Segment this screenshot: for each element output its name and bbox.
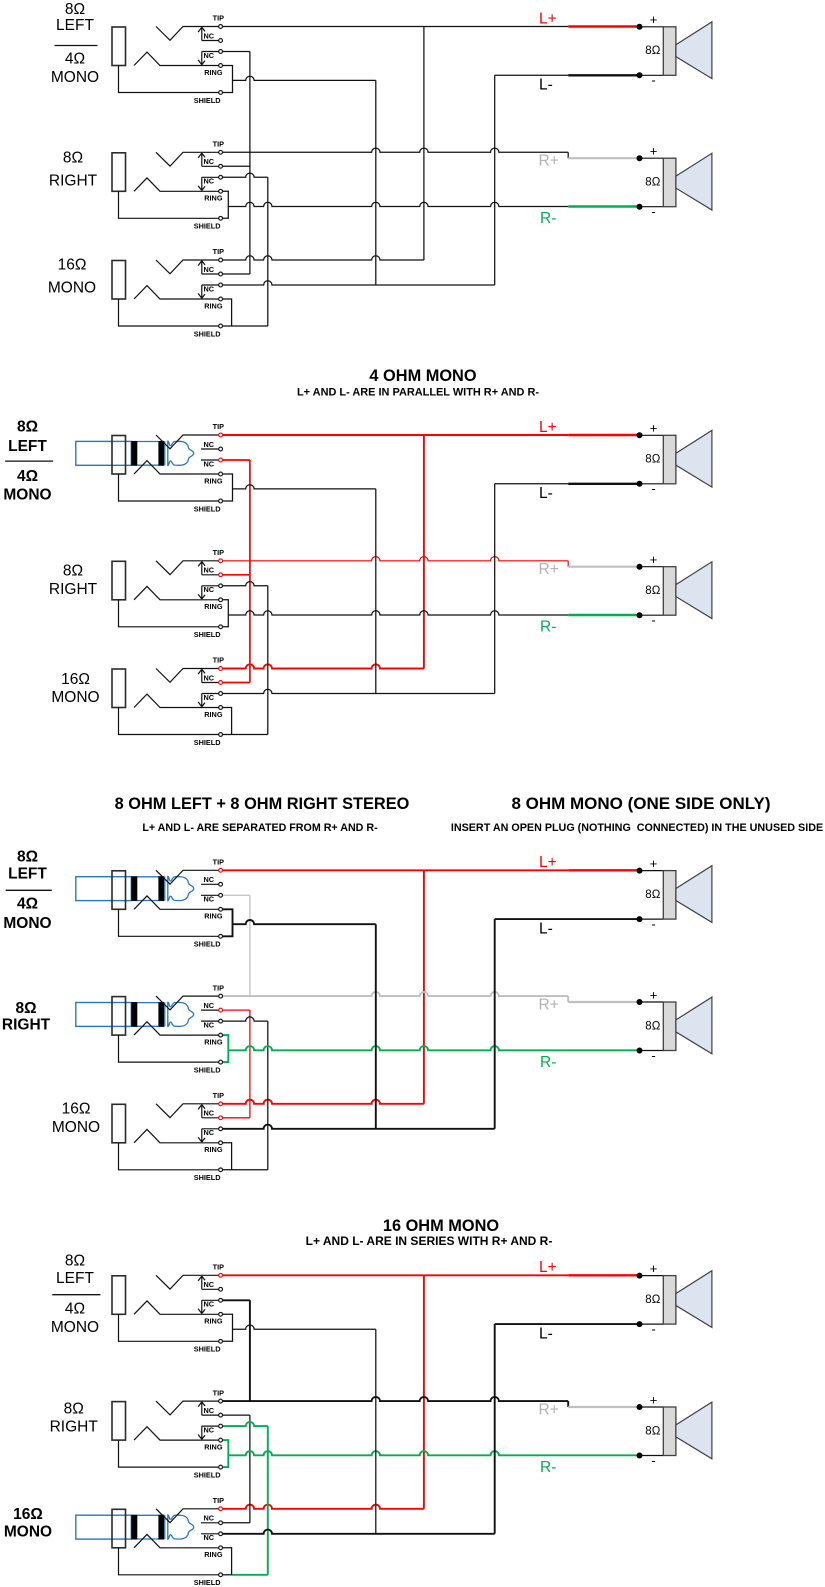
wire S1 NC1(J2) wire — [223, 165, 250, 167]
svg-text:NC: NC — [204, 265, 215, 274]
svg-text:+: + — [650, 1392, 658, 1407]
J41 NC1 terminal — [219, 1287, 223, 1291]
J42 NC2 terminal — [219, 1424, 223, 1428]
J11 SHIELD lead — [119, 66, 219, 93]
jack J32 — [76, 983, 224, 1074]
J13 NC1 contact + switch arrow — [198, 261, 218, 274]
J33 NC2 terminal — [219, 1127, 223, 1131]
J11 NC2 terminal — [219, 50, 223, 54]
svg-text:8Ω: 8Ω — [65, 1, 85, 18]
J13 RING contact — [134, 286, 219, 299]
svg-text:SHIELD: SHIELD — [194, 1578, 221, 1587]
wire S1 L- branch from J1 — [233, 76, 376, 80]
svg-text:NC: NC — [204, 177, 215, 186]
svg-text:NC: NC — [204, 440, 215, 449]
J33 RING terminal — [219, 1141, 223, 1145]
svg-text:MONO: MONO — [51, 1319, 99, 1336]
J21 SHIELD lead — [119, 474, 219, 501]
SP2L (8 ohm) terminal leads — [640, 435, 664, 484]
svg-text:8Ω: 8Ω — [17, 849, 38, 866]
SP1L (8 ohm) + terminal dot — [637, 24, 643, 30]
svg-text:MONO: MONO — [3, 915, 51, 932]
speaker SP3L (8 ohm) — [637, 856, 712, 932]
svg-text:TIP: TIP — [213, 1496, 224, 1505]
J42 NC2 contact + switch arrow — [198, 1426, 218, 1439]
J43 TIP terminal — [219, 1507, 223, 1511]
J32 NC2 stub (open) — [201, 1020, 219, 1022]
svg-text:TIP: TIP — [213, 1091, 224, 1100]
svg-text:TIP: TIP — [213, 140, 224, 149]
plug stripe 1 — [131, 1515, 137, 1540]
wire S3 L- vertical — [494, 919, 496, 1129]
J13 SHIELD terminal — [219, 324, 223, 328]
svg-text:8Ω: 8Ω — [645, 1020, 660, 1032]
plug in J21: handle — [76, 441, 132, 465]
J43 NC1 stub (open) — [201, 1522, 219, 1524]
SP2L (8 ohm) magnet/frame — [663, 435, 676, 484]
svg-text:MONO: MONO — [52, 1119, 100, 1136]
wire S3 L- branch from J1 — [233, 920, 376, 924]
svg-text:MONO: MONO — [3, 487, 51, 504]
J23 body (bushing) — [112, 669, 126, 708]
J12 RING terminal — [219, 189, 223, 193]
SP4R (8 ohm) + terminal dot — [637, 1404, 643, 1410]
J13 TIP contact — [156, 260, 219, 274]
svg-text:R-: R- — [540, 210, 556, 227]
svg-text:R+: R+ — [539, 996, 559, 1013]
J33 SHIELD terminal — [219, 1168, 223, 1172]
J33 RING contact — [134, 1129, 219, 1142]
SP4L (8 ohm) - terminal dot — [637, 1321, 643, 1327]
svg-text:16Ω: 16Ω — [61, 671, 90, 688]
svg-text:R+: R+ — [539, 153, 559, 170]
J41 body (bushing) — [112, 1276, 126, 1315]
svg-text:TIP: TIP — [213, 983, 224, 992]
wire S2 R+ segment (gray) — [568, 566, 639, 568]
J13 SHIELD lead — [119, 299, 219, 326]
wire S1 TIP1 feed (black) — [223, 26, 568, 28]
jack J33 — [112, 1091, 224, 1182]
svg-text:L+: L+ — [539, 10, 557, 27]
plug stripe 2 — [158, 441, 164, 466]
J22 SHIELD terminal — [219, 625, 223, 629]
wire S1 L- segment (thick) — [568, 74, 639, 76]
J21 RING terminal — [219, 472, 223, 476]
wire S3 TIP3 line — [223, 1100, 424, 1104]
SP3L (8 ohm) terminal leads — [640, 871, 664, 920]
svg-text:SHIELD: SHIELD — [194, 1065, 221, 1074]
J11 NC1 terminal — [219, 39, 223, 43]
svg-text:16Ω: 16Ω — [58, 257, 87, 274]
svg-text:SHIELD: SHIELD — [194, 1470, 221, 1479]
J31 NC1 stub (open) — [201, 883, 219, 885]
J13 NC2 contact + switch arrow — [198, 285, 218, 298]
svg-text:NC: NC — [204, 585, 215, 594]
svg-text:INSERT AN OPEN PLUG (NOTHING: INSERT AN OPEN PLUG (NOTHING CONNECTED) … — [451, 822, 823, 834]
wire S4 L+ segment (red) — [568, 1274, 639, 1276]
SP3R (8 ohm) - terminal dot — [637, 1048, 643, 1054]
J13 body (bushing) — [112, 261, 126, 300]
J12 NC2 contact + switch arrow — [198, 177, 218, 190]
svg-text:NC: NC — [204, 284, 215, 293]
svg-text:NC: NC — [204, 157, 215, 166]
plug stripe 2 — [158, 876, 164, 901]
SP1R (8 ohm) - terminal dot — [637, 204, 643, 210]
svg-text:RING: RING — [204, 602, 223, 611]
wire S3 SHIELD3 line — [223, 1169, 268, 1171]
svg-text:-: - — [651, 73, 655, 88]
wire S3 NC2(J1) wire (gray) — [223, 894, 250, 896]
J42 TIP contact — [156, 1401, 219, 1415]
svg-text:RING: RING — [204, 710, 223, 719]
plug shaft — [131, 442, 164, 466]
wire S1 NC bus vertical — [249, 52, 251, 275]
J32 RING terminal — [219, 1033, 223, 1037]
wire S1 L- feed — [495, 74, 569, 76]
svg-text:+: + — [650, 12, 658, 27]
wire S1 TIP2 feed — [223, 148, 568, 152]
J23 RING contact — [134, 694, 219, 707]
wire S4 J3 RING-SHIELD link — [223, 1548, 232, 1575]
SP2R (8 ohm) terminal leads — [640, 567, 664, 616]
wire S4 NC2(J2)-SHIELD3 vertical (green) — [267, 1426, 269, 1575]
J11 RING contact — [134, 52, 219, 65]
J22 RING contact — [134, 586, 219, 599]
svg-text:8Ω: 8Ω — [63, 150, 83, 167]
svg-text:RING: RING — [204, 194, 223, 203]
wire S4 R+ jog — [567, 1401, 569, 1407]
J12 SHIELD terminal — [219, 216, 223, 220]
svg-text:L+: L+ — [539, 419, 557, 436]
svg-text:TIP: TIP — [213, 1263, 224, 1272]
J23 NC2 terminal — [219, 692, 223, 696]
speaker SP4L (8 ohm) — [637, 1261, 712, 1337]
svg-text:NC: NC — [204, 1300, 215, 1309]
J31 NC2 terminal — [219, 893, 223, 897]
svg-text:NC: NC — [204, 1406, 215, 1415]
wire S3 R+ segment (gray) — [568, 1001, 639, 1003]
SP4R (8 ohm) - terminal dot — [637, 1453, 643, 1459]
SP2R (8 ohm) magnet/frame — [663, 567, 676, 616]
wire S4 NC bus lower — [249, 1415, 251, 1523]
wire S1 NC2(J2) wire — [223, 173, 268, 177]
wire S1 TIP1-TIP3 link vertical — [423, 27, 425, 261]
svg-text:NC: NC — [204, 1001, 215, 1010]
wire S4 NC2(J2) wire (green) — [223, 1422, 268, 1426]
J22 NC2 contact + switch arrow — [198, 586, 218, 599]
J41 SHIELD terminal — [219, 1339, 223, 1343]
wire S3 L- line (thick) — [495, 918, 640, 920]
J11 body (bushing) — [112, 27, 126, 66]
J41 NC1 contact + switch arrow — [198, 1276, 218, 1289]
J42 RING terminal — [219, 1438, 223, 1442]
svg-text:+: + — [650, 144, 658, 159]
SP1L (8 ohm) cone — [676, 22, 712, 79]
SP2R (8 ohm) cone — [676, 562, 712, 619]
plug stripe 2 — [158, 1515, 164, 1540]
svg-text:SHIELD: SHIELD — [194, 96, 221, 105]
wire S4 L- vertical — [494, 1324, 496, 1534]
wire S4 NC2(J1) wire — [223, 1299, 250, 1301]
wire S4 R- line (green) — [228, 1451, 639, 1455]
svg-text:TIP: TIP — [213, 858, 224, 867]
wire S1 L+ segment (red) — [568, 25, 639, 27]
plug in J31: handle — [76, 877, 132, 901]
J12 NC1 terminal — [219, 164, 223, 168]
J22 TIP terminal — [219, 559, 223, 563]
plug tip — [168, 1515, 194, 1539]
wire S2 L- segment (thick) — [568, 483, 639, 485]
svg-text:L-: L- — [539, 920, 553, 937]
J11 RING terminal — [219, 64, 223, 68]
svg-text:RING: RING — [204, 912, 223, 921]
SP3L (8 ohm) + terminal dot — [637, 868, 643, 874]
J21 RING contact — [134, 461, 219, 474]
label S2 J2 "8ohm RIGHT" — [49, 563, 98, 599]
svg-text:SHIELD: SHIELD — [194, 329, 221, 338]
wire S3 R- line (green) — [228, 1046, 639, 1050]
J31 NC1 terminal — [219, 882, 223, 886]
label S1 J2 "8ohm RIGHT" — [49, 150, 98, 190]
wire S2 J2 RING-SHIELD link — [223, 600, 228, 627]
J43 RING contact — [134, 1534, 219, 1547]
J12 TIP contact — [156, 152, 219, 166]
plug tip — [168, 1002, 194, 1026]
J22 NC1 terminal — [219, 573, 223, 577]
SP1R (8 ohm) cone — [676, 153, 712, 210]
speaker SP2R (8 ohm) — [637, 552, 712, 628]
svg-text:+: + — [650, 552, 658, 567]
label S4 J3 "16ohm MONO" (bold) — [4, 1506, 52, 1541]
svg-text:NC: NC — [204, 895, 215, 904]
wire S3 NC1(J3) wire (red) — [223, 1117, 250, 1119]
J11 TIP terminal — [219, 25, 223, 29]
svg-text:LEFT: LEFT — [56, 17, 94, 34]
wire S1 J1 RING-SHIELD link — [223, 66, 233, 93]
wire S1 NC2(J3) / L- return line — [223, 281, 495, 285]
plug in J32: handle — [76, 1003, 132, 1027]
svg-text:4Ω: 4Ω — [17, 468, 38, 485]
wire S1 R- segment (green) — [568, 205, 639, 207]
J41 RING contact — [134, 1301, 219, 1314]
svg-text:MONO: MONO — [4, 1524, 52, 1541]
wire S4 NC2(J3) / L- return line — [223, 1530, 495, 1534]
wire S4 L- branch from J1 — [233, 1325, 376, 1329]
wire S1 NC2(J2)-SHIELD3 vertical — [267, 177, 269, 326]
label S2 J3 "16ohm MONO" — [51, 671, 99, 706]
svg-text:TIP: TIP — [213, 422, 224, 431]
J32 SHIELD terminal — [219, 1060, 223, 1064]
J31 RING terminal — [219, 907, 223, 911]
J23 NC2 contact + switch arrow — [198, 694, 218, 707]
J23 NC1 terminal — [219, 681, 223, 685]
svg-text:-: - — [651, 916, 655, 931]
svg-text:-: - — [651, 1321, 655, 1336]
wire S2 L+ line (red) — [223, 434, 568, 436]
plug tip — [168, 441, 194, 465]
J42 body (bushing) — [112, 1402, 126, 1441]
J41 TIP contact — [156, 1275, 219, 1289]
plug collar — [164, 441, 166, 465]
svg-text:R-: R- — [540, 1054, 556, 1071]
svg-text:8Ω: 8Ω — [64, 1401, 84, 1418]
J23 NC1 contact + switch arrow — [198, 669, 218, 682]
J33 NC1 terminal — [219, 1116, 223, 1120]
fraction separator line — [55, 45, 98, 47]
J21 NC1 terminal — [219, 447, 223, 451]
jack J11 — [112, 14, 224, 105]
wire S1 J3 RING-SHIELD link — [223, 299, 232, 326]
svg-text:LEFT: LEFT — [56, 1270, 94, 1287]
plug shaft — [131, 877, 164, 901]
wire S3 J2 RING-SHIELD link — [223, 1035, 228, 1062]
J31 SHIELD terminal — [219, 934, 223, 938]
svg-text:8 OHM MONO (ONE SIDE ONLY): 8 OHM MONO (ONE SIDE ONLY) — [511, 794, 770, 813]
svg-text:L+ AND L- ARE IN PARALLEL WITH: L+ AND L- ARE IN PARALLEL WITH R+ AND R- — [297, 387, 539, 399]
svg-text:L-: L- — [539, 485, 553, 502]
J41 NC2 contact + switch arrow — [198, 1300, 218, 1313]
jack J42 — [112, 1388, 224, 1479]
svg-text:MONO: MONO — [51, 689, 99, 706]
wire S2 SHIELD3 line — [223, 734, 268, 736]
J12 NC2 terminal — [219, 175, 223, 179]
J11 TIP contact — [156, 27, 219, 41]
svg-text:+: + — [650, 1261, 658, 1276]
speaker SP1L (8 ohm) — [637, 12, 712, 88]
J43 NC2 terminal — [219, 1532, 223, 1536]
J13 TIP terminal — [219, 258, 223, 262]
J12 RING contact — [134, 178, 219, 191]
svg-text:8Ω: 8Ω — [15, 1000, 36, 1017]
J22 NC1 contact + switch arrow — [198, 562, 218, 575]
J23 TIP terminal — [219, 667, 223, 671]
wire S3 J3 RING-SHIELD link — [223, 1143, 232, 1170]
svg-text:RING: RING — [204, 301, 223, 310]
svg-text:RING: RING — [204, 476, 223, 485]
jack J22 — [112, 548, 224, 639]
svg-text:+: + — [650, 421, 658, 436]
SP4L (8 ohm) + terminal dot — [637, 1273, 643, 1279]
J43 NC1 terminal — [219, 1521, 223, 1525]
svg-text:MONO: MONO — [51, 69, 99, 86]
J21 SHIELD terminal — [219, 499, 223, 503]
wire S3 TIP1-TIP3 link vertical — [423, 870, 425, 1104]
svg-text:RING: RING — [204, 1317, 223, 1326]
svg-text:8Ω: 8Ω — [645, 454, 660, 466]
wire S4 TIP1-TIP3 link vertical — [423, 1275, 425, 1509]
svg-text:SHIELD: SHIELD — [194, 940, 221, 949]
speaker SP3R (8 ohm) — [637, 987, 712, 1063]
wire S4 L- line (thick) — [495, 1323, 640, 1325]
svg-text:L+ AND L- ARE SEPARATED FROM R: L+ AND L- ARE SEPARATED FROM R+ AND R- — [142, 822, 378, 834]
svg-text:NC: NC — [204, 566, 215, 575]
wire S2 NC2(J3) / L- return line — [223, 689, 495, 693]
wire S2 TIP1-TIP3 link vertical — [423, 435, 425, 669]
J32 NC2 terminal — [219, 1019, 223, 1023]
SP2L (8 ohm) - terminal dot — [637, 481, 643, 487]
label S3 J2 "8ohm RIGHT" (bold) — [2, 1000, 51, 1034]
svg-text:NC: NC — [204, 51, 215, 60]
wire S3 NC bus upper (gray) — [249, 895, 251, 996]
wire S2 NC2(J1) wire (red) — [223, 459, 250, 461]
svg-text:RING: RING — [204, 68, 223, 77]
svg-text:16Ω: 16Ω — [62, 1101, 91, 1118]
label S3 J1 "8ohm LEFT / 4ohm MONO" (bold) — [3, 849, 51, 933]
wire S1 L- vertical — [494, 75, 496, 285]
J23 SHIELD terminal — [219, 733, 223, 737]
J22 SHIELD lead — [119, 600, 219, 627]
svg-text:TIP: TIP — [213, 247, 224, 256]
SP4L (8 ohm) magnet/frame — [663, 1276, 676, 1325]
svg-text:4Ω: 4Ω — [65, 51, 85, 68]
svg-text:8Ω: 8Ω — [645, 1294, 660, 1306]
speaker SP1R (8 ohm) — [637, 144, 712, 220]
svg-text:RING: RING — [204, 1442, 223, 1451]
wire S3 L+ line (red) — [223, 869, 568, 871]
svg-text:R-: R- — [540, 1459, 556, 1476]
speaker SP2L (8 ohm) — [637, 421, 712, 497]
J43 body (bushing) — [112, 1509, 126, 1548]
SP2R (8 ohm) - terminal dot — [637, 612, 643, 618]
wire S4 TIP3 line — [223, 1505, 424, 1509]
svg-text:SHIELD: SHIELD — [194, 1173, 221, 1182]
SP1R (8 ohm) + terminal dot — [637, 155, 643, 161]
label S2 J1 "8ohm LEFT / 4ohm MONO" (bold) — [3, 419, 53, 504]
J33 TIP terminal — [219, 1102, 223, 1106]
J41 TIP terminal — [219, 1273, 223, 1277]
svg-text:L-: L- — [539, 1325, 553, 1342]
J43 SHIELD lead — [119, 1548, 219, 1575]
J31 TIP contact — [156, 870, 219, 884]
svg-text:-: - — [651, 613, 655, 628]
svg-text:8Ω: 8Ω — [645, 889, 660, 901]
J23 TIP contact — [156, 669, 219, 683]
wire S1 L- branch vertical — [375, 80, 377, 285]
svg-text:NC: NC — [204, 693, 215, 702]
J42 SHIELD terminal — [219, 1465, 223, 1469]
wire S4 NC bus upper — [249, 1300, 251, 1401]
svg-text:NC: NC — [204, 1109, 215, 1118]
plug stripe 1 — [131, 1002, 137, 1027]
svg-text:RIGHT: RIGHT — [49, 173, 98, 190]
wire S3 NC1(J2) wire (red) — [223, 1009, 250, 1011]
J43 TIP contact — [156, 1509, 219, 1523]
J21 TIP contact — [156, 435, 219, 449]
wire S2 NC2(J2) wire — [223, 582, 268, 586]
J31 RING contact — [134, 896, 219, 909]
svg-text:-: - — [651, 1048, 655, 1063]
svg-text:4 OHM MONO: 4 OHM MONO — [369, 367, 476, 385]
J32 RING contact — [134, 1022, 219, 1035]
J43 SHIELD terminal — [219, 1573, 223, 1577]
label S4 J1 "8ohm LEFT / 4ohm MONO" — [51, 1253, 101, 1336]
svg-text:RIGHT: RIGHT — [50, 1419, 99, 1436]
J32 TIP terminal — [219, 994, 223, 998]
J21 NC2 terminal — [219, 458, 223, 462]
J31 SHIELD lead — [119, 909, 219, 936]
jack J23 — [112, 656, 224, 747]
svg-text:+: + — [650, 987, 658, 1002]
svg-text:SHIELD: SHIELD — [194, 222, 221, 231]
fraction separator line — [5, 460, 53, 462]
J23 SHIELD lead — [119, 708, 219, 735]
J41 RING terminal — [219, 1312, 223, 1316]
SP3R (8 ohm) terminal leads — [640, 1002, 664, 1051]
svg-text:8 OHM LEFT + 8 OHM RIGHT STERE: 8 OHM LEFT + 8 OHM RIGHT STEREO — [115, 795, 410, 813]
wire S1 TIP3 line — [223, 256, 424, 260]
wire S2 J1 RING-SHIELD link — [223, 474, 233, 501]
svg-text:8Ω: 8Ω — [63, 563, 83, 580]
